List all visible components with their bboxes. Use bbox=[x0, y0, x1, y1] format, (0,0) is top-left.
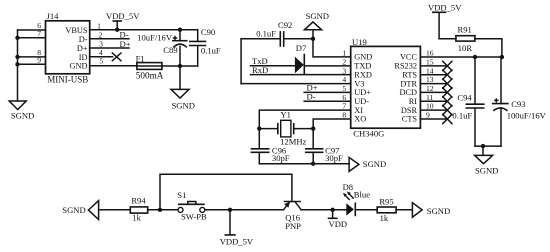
svg-text:D+: D+ bbox=[120, 39, 131, 49]
pin name DTR bbox=[400, 79, 417, 88]
wire crystal ground rail bbox=[259, 163, 349, 165]
wire D8 to R95 bbox=[355, 209, 377, 211]
junction dot shield 9 bbox=[15, 62, 19, 66]
svg-text:10uF/16V: 10uF/16V bbox=[137, 33, 173, 43]
power VDD_5V bottom tap bbox=[220, 210, 254, 247]
svg-text:RXD: RXD bbox=[354, 70, 372, 79]
svg-text:1: 1 bbox=[342, 49, 346, 58]
pin number 7 bbox=[37, 29, 41, 38]
capacitor C96 bbox=[251, 149, 270, 164]
svg-text:D7: D7 bbox=[296, 43, 307, 53]
svg-text:MINI-USB: MINI-USB bbox=[47, 74, 88, 84]
svg-text:TXD: TXD bbox=[354, 62, 371, 71]
junction dot shield 7 bbox=[15, 36, 19, 40]
net label D+ (U19) bbox=[307, 82, 318, 92]
svg-text:SGND: SGND bbox=[11, 110, 34, 120]
value 30pF C96 bbox=[272, 153, 290, 163]
wire GND pin1 U19 bbox=[313, 39, 351, 57]
svg-text:100uF/16V: 100uF/16V bbox=[507, 111, 547, 121]
svg-text:SGND: SGND bbox=[172, 101, 195, 111]
label C90 bbox=[201, 27, 215, 37]
wire VBUS pin1 rail bbox=[90, 29, 198, 31]
no-connect X pin13 bbox=[443, 79, 452, 88]
svg-text:CH340G: CH340G bbox=[353, 128, 384, 138]
svg-text:DTR: DTR bbox=[400, 79, 417, 88]
svg-text:VBUS: VBUS bbox=[65, 26, 88, 35]
pin number 2 bbox=[99, 30, 103, 39]
svg-text:XI: XI bbox=[354, 106, 363, 115]
fuse F1 bbox=[137, 63, 162, 70]
value 10R bbox=[458, 43, 473, 53]
label PNP bbox=[285, 221, 301, 231]
label R95 bbox=[379, 196, 393, 206]
capacitor C89 bbox=[172, 30, 188, 66]
pin number 9 bbox=[37, 56, 41, 65]
svg-text:D-: D- bbox=[307, 91, 316, 101]
pin number 16 bbox=[426, 49, 434, 58]
wire shield bus bbox=[17, 30, 19, 101]
value 0.1uF C94 bbox=[452, 111, 472, 121]
connector J14 body bbox=[46, 21, 90, 74]
pin name D- bbox=[79, 35, 88, 44]
plus mark C89 bbox=[173, 36, 176, 39]
crystal Y1 bbox=[259, 120, 313, 137]
wire UD- pin6 bbox=[304, 100, 351, 102]
svg-text:S1: S1 bbox=[177, 190, 186, 200]
svg-text:Y1: Y1 bbox=[280, 110, 291, 120]
pin number 15 bbox=[426, 58, 434, 67]
pin number 3 U19 bbox=[342, 66, 346, 75]
svg-text:10R: 10R bbox=[458, 43, 473, 53]
label Y1 bbox=[280, 110, 291, 120]
svg-text:C90: C90 bbox=[201, 27, 215, 37]
svg-text:30pF: 30pF bbox=[272, 153, 290, 163]
svg-text:2: 2 bbox=[342, 58, 346, 67]
pin number 8 bbox=[37, 48, 41, 57]
label CH340G bbox=[353, 128, 384, 138]
pin name VBUS bbox=[65, 26, 88, 35]
svg-text:1k: 1k bbox=[380, 213, 389, 223]
label J14 bbox=[47, 11, 60, 21]
junction dot C94 top bbox=[473, 55, 477, 59]
pin number 4 bbox=[99, 48, 103, 57]
svg-text:XO: XO bbox=[354, 115, 366, 124]
net label D- bbox=[120, 30, 129, 40]
pin number 13 bbox=[426, 75, 434, 84]
wire V3 vertical from C92 bbox=[240, 39, 242, 84]
pin name UD- bbox=[354, 97, 369, 106]
pin number 9 U19 bbox=[426, 111, 430, 120]
wire pin12 stub bbox=[420, 91, 447, 93]
resistor R91 bbox=[456, 36, 475, 41]
wire port to R94 bbox=[99, 209, 131, 211]
svg-text:VDD: VDD bbox=[329, 219, 348, 229]
svg-text:D-: D- bbox=[79, 35, 88, 44]
svg-text:J14: J14 bbox=[47, 11, 60, 21]
pin name XI bbox=[354, 106, 363, 115]
power VDD_5V top-left bbox=[106, 11, 140, 30]
junction dot ground rail bbox=[481, 144, 485, 148]
no-connect X pin12 bbox=[443, 88, 452, 97]
label R94 bbox=[131, 195, 146, 205]
svg-text:ID: ID bbox=[79, 53, 88, 62]
svg-text:DCD: DCD bbox=[399, 88, 417, 97]
capacitor C93 bbox=[492, 57, 509, 146]
wire shield pin7 bbox=[18, 37, 46, 39]
power VDD tap bbox=[328, 210, 347, 229]
label S1 bbox=[177, 190, 186, 200]
junction dot crystal right bbox=[311, 126, 315, 130]
svg-text:GND: GND bbox=[70, 62, 88, 71]
pin number 5 U19 bbox=[342, 84, 346, 93]
value 12MHz bbox=[280, 136, 306, 146]
net label TxD bbox=[252, 56, 268, 66]
value 500mA bbox=[136, 70, 164, 80]
wire pin11 stub bbox=[420, 100, 447, 102]
wire GND pin5 bbox=[90, 65, 137, 67]
pin name ID bbox=[79, 53, 88, 62]
pin name RI bbox=[409, 97, 418, 106]
svg-text:2: 2 bbox=[99, 30, 103, 39]
wire pin14 stub bbox=[420, 74, 447, 76]
pin number 10 bbox=[426, 102, 434, 111]
wire pin13 stub bbox=[420, 83, 447, 85]
plus mark C93 bbox=[495, 99, 498, 102]
no-connect X pin10 bbox=[443, 105, 452, 114]
junction dot C89 bottom bbox=[178, 64, 182, 68]
pin name RTS bbox=[402, 70, 417, 79]
switch S1 bbox=[178, 202, 205, 213]
svg-text:9: 9 bbox=[37, 56, 41, 65]
svg-text:RS232: RS232 bbox=[394, 62, 417, 71]
wire F1 to C90 bbox=[162, 65, 198, 67]
value 100uF/16V bbox=[507, 111, 547, 121]
net label D+ bbox=[120, 39, 131, 49]
svg-text:5: 5 bbox=[99, 56, 103, 65]
pin name CTS bbox=[402, 115, 418, 124]
pin number 14 bbox=[426, 66, 434, 75]
svg-text:C94: C94 bbox=[457, 93, 472, 103]
wire RxD bbox=[251, 74, 351, 76]
junction dot shield 8 bbox=[15, 55, 19, 59]
pin name RS232 bbox=[394, 62, 417, 71]
wire to R91 bbox=[439, 38, 456, 40]
svg-text:Blue: Blue bbox=[354, 190, 370, 200]
capacitor C92 bbox=[280, 31, 313, 47]
pin number 7 U19 bbox=[342, 102, 346, 111]
svg-text:SGND: SGND bbox=[62, 205, 85, 215]
net label D- (U19) bbox=[307, 91, 316, 101]
wire pin9 stub bbox=[420, 118, 447, 120]
pin number 8 U19 bbox=[342, 111, 346, 120]
label R91 bbox=[458, 25, 472, 35]
label Q16 bbox=[285, 212, 301, 222]
svg-text:SGND: SGND bbox=[475, 165, 498, 175]
svg-text:SGND: SGND bbox=[363, 159, 386, 169]
no-connect X pin15 bbox=[443, 61, 452, 70]
wire V3 pin4 bbox=[241, 83, 351, 85]
label F1 bbox=[136, 53, 145, 63]
wire S1 to Q16 bbox=[205, 209, 284, 211]
svg-text:RxD: RxD bbox=[252, 65, 268, 75]
svg-text:C92: C92 bbox=[278, 20, 292, 30]
ground SGND under C89 bbox=[171, 66, 195, 111]
pin name RXD bbox=[354, 70, 372, 79]
net label RxD bbox=[252, 65, 268, 75]
no-connect X pin4 bbox=[112, 53, 121, 61]
svg-text:SW-PB: SW-PB bbox=[181, 212, 207, 222]
svg-text:DSR: DSR bbox=[401, 106, 418, 115]
pin number 3 bbox=[99, 40, 103, 49]
wire VCC pin16 bbox=[420, 56, 502, 58]
svg-text:3: 3 bbox=[99, 40, 103, 49]
label D8 bbox=[343, 182, 354, 192]
svg-text:C89: C89 bbox=[163, 45, 177, 55]
pin number 6 bbox=[37, 21, 41, 30]
port SGND bottom-right bbox=[412, 203, 450, 218]
svg-text:3: 3 bbox=[342, 66, 346, 75]
svg-text:RTS: RTS bbox=[402, 70, 417, 79]
svg-text:R95: R95 bbox=[379, 196, 393, 206]
svg-text:GND: GND bbox=[354, 53, 372, 62]
svg-text:VDD_5V: VDD_5V bbox=[106, 11, 140, 21]
value 0.1uF C92 bbox=[256, 28, 276, 38]
pin number 1 bbox=[97, 22, 101, 31]
junction dot rail C97 bbox=[311, 162, 315, 166]
label U19 bbox=[352, 37, 367, 47]
resistor R95 bbox=[377, 207, 396, 213]
svg-text:0.1uF: 0.1uF bbox=[201, 46, 221, 56]
wire shield pin8 bbox=[18, 56, 46, 58]
pin name UD+ bbox=[354, 88, 371, 97]
svg-text:0.1uF: 0.1uF bbox=[256, 28, 276, 38]
pin name D+ bbox=[77, 44, 88, 53]
junction dot VDD_5V bbox=[115, 28, 119, 32]
wire R91 to VCC bbox=[475, 39, 502, 57]
svg-text:0.1uF: 0.1uF bbox=[452, 111, 472, 121]
svg-text:D+: D+ bbox=[77, 44, 88, 53]
pin number 4 U19 bbox=[342, 75, 346, 84]
no-connect X pin11 bbox=[443, 97, 452, 106]
svg-text:500mA: 500mA bbox=[136, 70, 164, 80]
junction dot VDD_5V tap bbox=[228, 208, 232, 212]
label MINI-USB bbox=[47, 74, 88, 84]
label C94 bbox=[457, 93, 472, 103]
svg-text:RI: RI bbox=[409, 97, 418, 106]
junction dot crystal left bbox=[257, 126, 261, 130]
wire D+ stub bbox=[90, 47, 129, 49]
svg-text:D8: D8 bbox=[343, 182, 354, 192]
label C93 bbox=[511, 99, 525, 109]
wire XO pin8 bbox=[313, 119, 351, 149]
ground SGND USB shield bbox=[9, 101, 34, 120]
pin name XO bbox=[354, 115, 366, 124]
svg-text:R94: R94 bbox=[131, 195, 146, 205]
no-connect X pin14 bbox=[443, 70, 452, 79]
power VDD_5V top-right bbox=[428, 3, 462, 39]
svg-text:UD+: UD+ bbox=[354, 88, 371, 97]
port SGND crystal bbox=[349, 157, 386, 171]
svg-text:PNP: PNP bbox=[285, 221, 301, 231]
label D7 bbox=[296, 43, 307, 53]
value 30pF C97 bbox=[325, 153, 343, 163]
ground SGND above C92 bbox=[304, 11, 329, 39]
pin name VCC bbox=[400, 53, 418, 62]
pin number 12 bbox=[426, 84, 434, 93]
junction dot C89 top bbox=[178, 28, 182, 32]
value 0.1uF C90 bbox=[201, 46, 221, 56]
wire XI pin7 bbox=[259, 110, 350, 149]
svg-text:VDD_5V: VDD_5V bbox=[428, 3, 462, 13]
pin name DSR bbox=[401, 106, 418, 115]
value 1k R94 bbox=[132, 213, 141, 223]
port SGND bottom-left bbox=[62, 201, 98, 220]
LED D8 arrows bbox=[343, 192, 353, 200]
wire shield pin9 bbox=[18, 63, 46, 65]
wire pin15 stub bbox=[420, 65, 447, 67]
svg-text:V3: V3 bbox=[354, 79, 364, 88]
wire D- stub bbox=[90, 38, 129, 40]
value 1k R95 bbox=[380, 213, 389, 223]
svg-text:6: 6 bbox=[342, 93, 346, 102]
capacitor C97 bbox=[305, 149, 323, 164]
resistor R94 bbox=[130, 207, 147, 213]
wire caps ground rail bbox=[475, 145, 501, 147]
capacitor C90 bbox=[189, 30, 206, 66]
pin number 5 bbox=[99, 56, 103, 65]
svg-text:CTS: CTS bbox=[402, 115, 418, 124]
svg-text:VDD_5V: VDD_5V bbox=[220, 237, 254, 247]
pin number 6 U19 bbox=[342, 93, 346, 102]
svg-text:SGND: SGND bbox=[427, 206, 450, 216]
no-connect X pin9 bbox=[443, 114, 452, 123]
svg-text:4: 4 bbox=[342, 75, 346, 84]
svg-text:U19: U19 bbox=[352, 37, 367, 47]
wire R94 to S1 bbox=[148, 209, 178, 211]
svg-text:F1: F1 bbox=[136, 53, 145, 63]
wire UD+ pin5 bbox=[304, 91, 351, 93]
svg-text:7: 7 bbox=[37, 29, 41, 38]
label SW-PB bbox=[181, 212, 207, 222]
label C97 bbox=[325, 146, 340, 156]
pin name V3 bbox=[354, 79, 364, 88]
wire R95 to port bbox=[396, 209, 412, 211]
svg-text:UD-: UD- bbox=[354, 97, 369, 106]
junction dot R94 right bbox=[158, 208, 162, 212]
wire base loop bbox=[160, 174, 292, 210]
pin number 1 U19 bbox=[342, 49, 346, 58]
svg-text:5: 5 bbox=[342, 84, 346, 93]
label C92 bbox=[278, 20, 292, 30]
pin number 2 U19 bbox=[342, 58, 346, 67]
svg-text:R91: R91 bbox=[458, 25, 472, 35]
pin name GND bbox=[354, 53, 372, 62]
wire TxD bbox=[251, 65, 295, 67]
svg-text:SGND: SGND bbox=[306, 11, 329, 21]
wire to C92 left bbox=[241, 38, 280, 40]
svg-text:8: 8 bbox=[342, 111, 346, 120]
wire pin10 stub bbox=[420, 109, 447, 111]
label Blue bbox=[354, 190, 370, 200]
svg-text:7: 7 bbox=[342, 102, 346, 111]
wire shield pin6 bbox=[18, 29, 46, 31]
junction dot VDD tap bbox=[330, 208, 334, 212]
pin name TXD bbox=[354, 62, 371, 71]
LED D8 bbox=[346, 203, 355, 217]
capacitor C94 bbox=[465, 57, 484, 146]
pin name DCD bbox=[399, 88, 417, 97]
pin number 11 bbox=[426, 93, 434, 102]
pin name GND bbox=[70, 62, 88, 71]
value 10uF/16V bbox=[137, 33, 173, 43]
IC U19 body bbox=[351, 46, 421, 128]
diode D7 bbox=[295, 54, 351, 75]
label C89 bbox=[163, 45, 177, 55]
svg-text:1k: 1k bbox=[132, 213, 141, 223]
wire Q16 to D8 bbox=[301, 209, 346, 211]
junction dot C92 right bbox=[311, 37, 315, 41]
svg-text:C93: C93 bbox=[511, 99, 525, 109]
label C96 bbox=[272, 146, 287, 156]
svg-text:VCC: VCC bbox=[400, 53, 418, 62]
svg-text:30pF: 30pF bbox=[325, 153, 343, 163]
ground SGND right bbox=[475, 146, 499, 175]
wire ID pin4 bbox=[90, 56, 113, 58]
junction dot C93 top bbox=[500, 55, 504, 59]
transistor Q16 PNP bbox=[284, 202, 301, 210]
